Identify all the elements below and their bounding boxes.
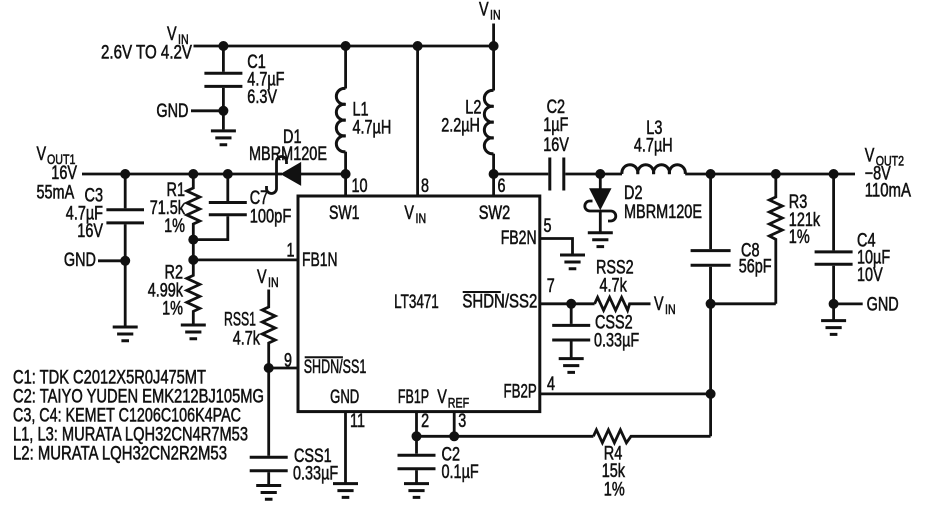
node VIN (right of RSS2) (654, 294, 676, 317)
svg-text:16V: 16V (77, 221, 103, 242)
svg-text:C1: TDK C2012X5R0J475MT: C1: TDK C2012X5R0J475MT (13, 368, 206, 389)
svg-text:L2: MURATA LQH32CN2R2M53: L2: MURATA LQH32CN2R2M53 (13, 444, 227, 465)
svg-text:SHDN/SS2: SHDN/SS2 (462, 292, 537, 313)
svg-text:GND: GND (156, 101, 188, 122)
node L2 top junction (489, 41, 499, 51)
parts list note (13, 368, 264, 465)
svg-text:L1, L3: MURATA LQH32CN4R7M53: L1, L3: MURATA LQH32CN4R7M53 (13, 425, 248, 446)
svg-text:REF: REF (448, 395, 469, 411)
capacitor C8 56pF (691, 174, 772, 304)
ground below C1 (211, 131, 236, 145)
svg-text:3: 3 (458, 411, 466, 432)
node FB1N junction (188, 255, 198, 265)
svg-text:IN: IN (490, 7, 501, 23)
svg-text:V: V (437, 387, 447, 408)
node GND label at C1 (156, 101, 228, 122)
svg-text:C3, C4: KEMET C1206C106K4PAC: C3, C4: KEMET C1206C106K4PAC (13, 406, 241, 427)
wire bottom feedback rail to R4 (417, 435, 594, 438)
wire L1 bottom lead to SW1 node (344, 152, 347, 196)
svg-text:SW1: SW1 (329, 203, 360, 224)
svg-text:6: 6 (498, 176, 506, 197)
ground below pin 11 (333, 484, 358, 498)
resistor RSS1 4.7k (224, 290, 275, 369)
inductor L1 4.7uH (336, 88, 391, 151)
node pin 2 junction (412, 431, 422, 441)
svg-text:V: V (404, 203, 414, 224)
resistor R4 15k (593, 430, 710, 501)
svg-text:5: 5 (544, 216, 552, 237)
node C4 top junction (829, 169, 839, 179)
node R1 top junction (188, 169, 198, 179)
wire feedback vertical riser (709, 267, 712, 436)
capacitor C4 10uF 10V (815, 174, 891, 321)
svg-text:GND: GND (330, 387, 359, 408)
wire FB2P pin 4 to feedback node (540, 392, 711, 395)
node D2 junction (595, 169, 605, 179)
node C4 GND junction (829, 299, 839, 309)
wire FB1N to pin 1 (193, 258, 298, 261)
node GND label at C4 (834, 295, 899, 316)
svg-text:1%: 1% (604, 480, 625, 501)
node C7 top junction (223, 169, 233, 179)
wire pin 11 GND lead (344, 412, 347, 484)
svg-text:16V: 16V (543, 135, 569, 156)
diode D2 MBRM120E (585, 174, 702, 233)
svg-text:FB1P: FB1P (398, 387, 429, 408)
node R1/C7 bottom junction (188, 235, 198, 245)
svg-text:56pF: 56pF (739, 257, 772, 278)
pin SHDN/SS1 label with overline (304, 357, 367, 378)
node C8 bottom junction (706, 299, 716, 309)
node VIN (top-center) (479, 0, 501, 23)
svg-text:IN: IN (268, 274, 279, 290)
capacitor C2 1uF 16V (543, 97, 569, 191)
node VIN (above RSS1) (257, 267, 279, 290)
svg-text:MBRM120E: MBRM120E (249, 144, 327, 165)
svg-text:7: 7 (547, 276, 555, 297)
svg-text:2: 2 (421, 411, 429, 432)
node pin 3 junction (449, 431, 459, 441)
wire top input rail (194, 45, 494, 48)
svg-text:100pF: 100pF (250, 207, 292, 228)
node SW1 pin10 junction (341, 169, 351, 179)
capacitor C2 0.1uF (398, 436, 479, 483)
svg-text:IN: IN (665, 301, 676, 317)
resistor R2 4.99k (148, 260, 200, 325)
node FB2P junction (706, 389, 716, 399)
pin SHDN/SS2 label with overline (462, 292, 537, 313)
wire C2 to D2 node (565, 173, 622, 176)
svg-text:0.33µF: 0.33µF (293, 464, 338, 485)
wire L3 to VOUT2 rail (685, 173, 855, 176)
svg-text:FB1N: FB1N (302, 250, 338, 271)
capacitor C1 (204, 46, 284, 129)
svg-text:4.7k: 4.7k (233, 329, 261, 350)
svg-text:0.33µF: 0.33µF (594, 331, 639, 352)
ground below C2 (404, 484, 429, 498)
ground below CSS2 (559, 359, 584, 373)
svg-text:V: V (37, 144, 47, 165)
capacitor C7 100pF (209, 174, 291, 228)
capacitor CSS2 0.33uF (552, 304, 639, 359)
svg-text:V: V (479, 0, 489, 21)
wire D1 anode to SW1 node (300, 173, 345, 176)
wire pin 8 VIN feed (416, 46, 419, 196)
diode D1 MBRM120E (249, 127, 327, 194)
svg-text:IN: IN (416, 210, 427, 226)
svg-text:55mA: 55mA (37, 183, 75, 204)
node C3 junction (120, 169, 130, 179)
svg-text:FB2P: FB2P (504, 382, 537, 403)
svg-text:LT3471: LT3471 (394, 292, 439, 313)
inductor L3 4.7uH (622, 118, 685, 174)
ground below R2 (181, 325, 206, 339)
svg-text:10V: 10V (857, 265, 883, 286)
svg-text:4: 4 (547, 374, 555, 395)
svg-text:2.6V TO 4.2V: 2.6V TO 4.2V (101, 43, 192, 64)
node pin8 top junction (413, 41, 423, 51)
svg-text:8: 8 (421, 176, 429, 197)
IC U1 LT3471 body (298, 196, 540, 412)
wire R3 bottom to C8 bottom (711, 302, 776, 305)
ground at FB2N (560, 255, 585, 269)
capacitor CSS1 0.33uF (250, 446, 339, 486)
svg-text:0.1µF: 0.1µF (442, 462, 479, 483)
svg-text:GND: GND (867, 295, 899, 316)
ground below C3 (113, 327, 138, 341)
svg-text:SHDN/SS1: SHDN/SS1 (304, 357, 367, 378)
svg-text:2.2µH: 2.2µH (441, 116, 480, 137)
wire FB2N stub to ground (540, 239, 573, 254)
svg-text:V: V (654, 294, 664, 315)
node SW2 pin6 junction (489, 169, 499, 179)
wire R1 bottom to FB1N node (192, 240, 195, 260)
node VOUT1 label (37, 144, 78, 204)
svg-text:1µF: 1µF (543, 115, 568, 136)
pin VREF label (437, 387, 469, 411)
svg-text:D2: D2 (624, 183, 643, 204)
svg-text:10: 10 (352, 176, 368, 197)
svg-text:1%: 1% (164, 216, 185, 237)
svg-text:6.3V: 6.3V (247, 87, 277, 108)
node VOUT2 label (865, 146, 912, 202)
node GND label at C3 (64, 250, 130, 271)
svg-text:C2: TAIYO YUDEN EMK212BJ105MG: C2: TAIYO YUDEN EMK212BJ105MG (13, 387, 264, 408)
wire VIN stub to L2 (492, 24, 495, 91)
node SHDN/SS1 junction (264, 363, 274, 373)
wire L1 top lead (344, 46, 347, 89)
node R3 top junction (771, 169, 781, 179)
pin VIN label (404, 203, 426, 226)
node C8 top junction (706, 169, 716, 179)
wire RSS1 junction down to CSS1 (267, 368, 270, 456)
svg-text:4.7µH: 4.7µH (634, 136, 673, 157)
resistor RSS2 4.7k (595, 258, 651, 311)
wire VOUT1 rail (82, 173, 282, 176)
node C1 top junction (218, 41, 228, 51)
wire L2 bottom lead to SW2 node (492, 154, 495, 196)
svg-text:4.7µH: 4.7µH (353, 118, 392, 139)
wire pin 2 lead (415, 412, 418, 437)
svg-text:MBRM120E: MBRM120E (624, 202, 702, 223)
svg-text:4.7k: 4.7k (600, 276, 628, 297)
svg-text:RSS1: RSS1 (224, 310, 256, 331)
svg-text:1%: 1% (162, 299, 183, 320)
inductor L2 2.2uH (441, 90, 493, 153)
ground below D2 (588, 233, 613, 247)
node SHDN/SS2 junction (566, 299, 576, 309)
resistor R3 121k (769, 174, 820, 304)
ground below CSS1 (256, 486, 281, 500)
svg-text:110mA: 110mA (865, 181, 912, 202)
wire C7 bottom to R1 bottom (193, 216, 228, 239)
svg-text:16V: 16V (51, 163, 77, 184)
svg-text:V: V (257, 267, 267, 288)
wire SW2 node to C2 (494, 173, 549, 176)
svg-text:1%: 1% (789, 227, 810, 248)
wire pin 3 lead (453, 412, 456, 437)
svg-text:FB2N: FB2N (501, 228, 537, 249)
svg-text:SW2: SW2 (479, 203, 511, 224)
ground below C4 (821, 321, 846, 335)
svg-text:11: 11 (350, 411, 365, 432)
node L1 top junction (341, 41, 351, 51)
resistor R1 71.5k (150, 174, 200, 240)
svg-text:1: 1 (287, 241, 295, 262)
capacitor C3 (66, 174, 144, 327)
svg-text:GND: GND (64, 250, 96, 271)
wire pin 9 stub (269, 367, 298, 370)
node VIN (top-left input) (101, 24, 192, 64)
wire SHDN/SS2 pin 7 stub (540, 302, 595, 305)
